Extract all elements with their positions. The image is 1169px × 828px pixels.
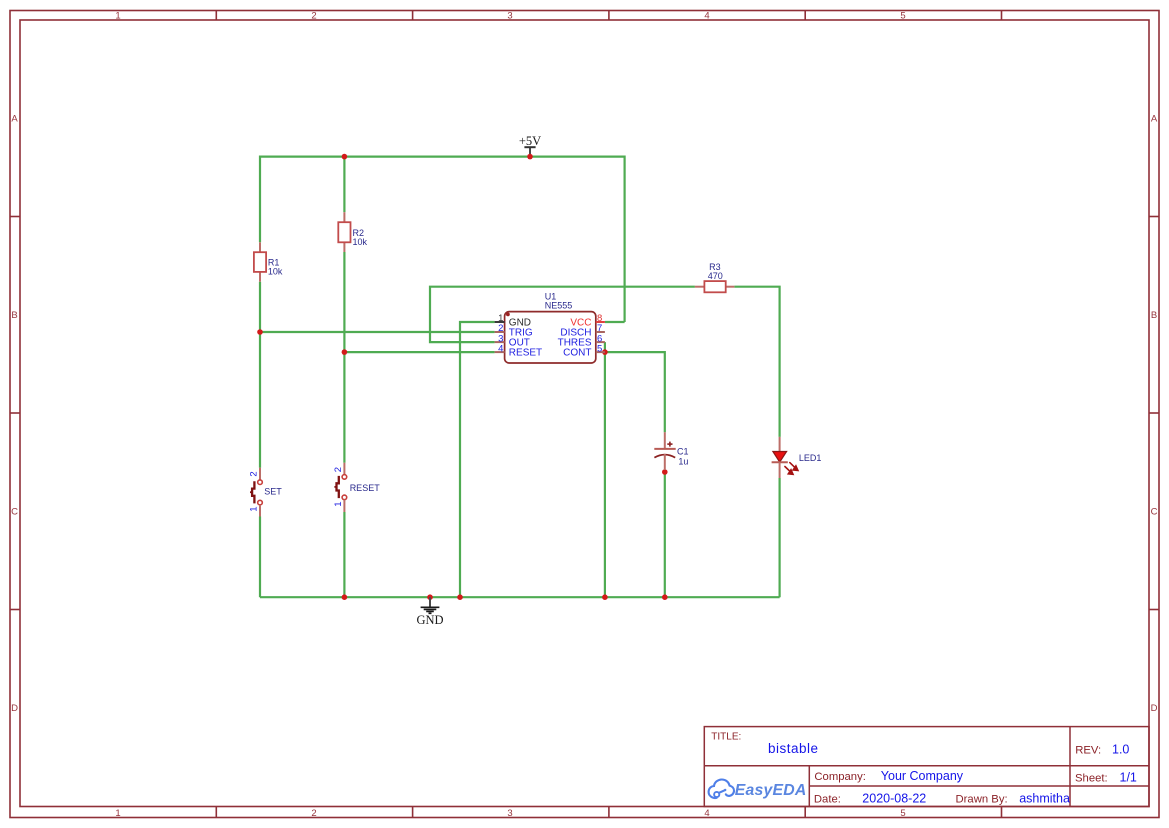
resistor R3 xyxy=(695,262,735,293)
svg-text:5: 5 xyxy=(900,10,905,21)
wire TRIG xyxy=(260,331,495,333)
svg-text:B: B xyxy=(1151,310,1157,321)
wire OUT to R3 xyxy=(430,287,695,342)
svg-text:NE555: NE555 xyxy=(545,301,573,311)
wire C1 bottom xyxy=(664,472,666,597)
wire GND pin1 xyxy=(460,322,495,597)
svg-text:TITLE:: TITLE: xyxy=(711,731,741,742)
wire top +5V rail xyxy=(260,157,625,322)
svg-text:1u: 1u xyxy=(678,457,688,467)
svg-text:B: B xyxy=(11,310,17,321)
svg-text:EasyEDA: EasyEDA xyxy=(735,782,807,799)
node rail C1 junction xyxy=(662,594,668,600)
svg-text:1: 1 xyxy=(115,10,120,21)
ground symbol GND xyxy=(416,597,443,627)
pin 7 DISCH xyxy=(596,331,605,333)
svg-text:C: C xyxy=(11,507,18,518)
wire SET bottom xyxy=(259,517,261,598)
wire RESET pin4 xyxy=(344,351,494,353)
node rail pin1 junction xyxy=(457,594,463,600)
svg-text:10k: 10k xyxy=(268,267,283,277)
wire LED bottom xyxy=(778,478,780,597)
svg-text:ashmitha: ashmitha xyxy=(1019,791,1070,805)
wire THRES riser xyxy=(604,342,606,597)
wire R2 riser xyxy=(343,157,345,213)
resistor R1 xyxy=(254,242,283,281)
node rail GND junction xyxy=(427,594,433,600)
svg-text:1.0: 1.0 xyxy=(1112,743,1129,757)
op-amp U1 NE555 xyxy=(495,291,605,363)
svg-text:Date:: Date: xyxy=(814,794,841,806)
svg-text:+5V: +5V xyxy=(519,134,541,148)
svg-text:470: 470 xyxy=(708,271,723,281)
EasyEDA logo xyxy=(709,779,734,798)
svg-text:RESET: RESET xyxy=(350,483,381,493)
wire CONT to C1 xyxy=(605,352,665,432)
svg-text:A: A xyxy=(1151,114,1158,125)
svg-text:2: 2 xyxy=(311,10,316,21)
svg-text:SET: SET xyxy=(264,486,282,496)
svg-text:2: 2 xyxy=(333,467,344,472)
svg-text:5: 5 xyxy=(597,343,602,354)
switch SET xyxy=(249,468,283,517)
node CONT junction xyxy=(602,349,608,355)
capacitor C1 xyxy=(654,432,688,470)
wire VCC stub link xyxy=(605,321,625,323)
pin 6 THRES xyxy=(596,341,605,343)
svg-text:Sheet:: Sheet: xyxy=(1075,773,1108,785)
pin 5 CONT xyxy=(596,351,605,353)
svg-text:D: D xyxy=(1151,703,1158,714)
svg-text:bistable: bistable xyxy=(768,741,819,756)
LED LED1 xyxy=(772,437,822,478)
node TRIG junction xyxy=(257,329,263,335)
title block xyxy=(704,727,1149,807)
svg-text:10k: 10k xyxy=(353,237,368,247)
svg-text:2: 2 xyxy=(249,471,260,476)
svg-text:3: 3 xyxy=(507,10,512,21)
svg-text:RESET: RESET xyxy=(509,348,542,359)
pin 1 GND xyxy=(495,321,505,323)
pin 8 VCC xyxy=(596,321,605,323)
svg-text:2020-08-22: 2020-08-22 xyxy=(862,792,926,806)
wire R3 to LED xyxy=(734,287,779,437)
svg-text:REV:: REV: xyxy=(1075,745,1101,757)
pin 3 OUT xyxy=(495,341,505,343)
svg-text:CONT: CONT xyxy=(563,348,591,359)
svg-text:C1: C1 xyxy=(677,447,689,457)
svg-text:4: 4 xyxy=(498,343,503,354)
svg-text:1: 1 xyxy=(333,502,344,507)
switch RESET xyxy=(333,463,380,512)
wire R2 column to RESET xyxy=(343,252,345,463)
wire R1 column to SET xyxy=(259,282,261,468)
svg-text:2: 2 xyxy=(311,808,316,819)
node R2 top junction xyxy=(342,154,348,160)
svg-text:D: D xyxy=(11,703,18,714)
pin 2 TRIG xyxy=(495,331,505,333)
svg-text:1: 1 xyxy=(249,507,260,512)
svg-text:5: 5 xyxy=(900,808,905,819)
node RESET junction xyxy=(342,349,348,355)
resistor R2 xyxy=(338,212,367,252)
svg-text:A: A xyxy=(11,114,18,125)
svg-text:4: 4 xyxy=(704,808,709,819)
node rail THRES junction xyxy=(602,594,608,600)
node rail RESET junction xyxy=(342,594,348,600)
svg-text:3: 3 xyxy=(507,808,512,819)
power flag +5V xyxy=(519,134,541,157)
pin 4 RESET xyxy=(495,351,505,353)
wire bottom rail xyxy=(260,596,780,598)
svg-text:1/1: 1/1 xyxy=(1120,771,1137,785)
svg-text:1: 1 xyxy=(115,808,120,819)
svg-text:C: C xyxy=(1151,507,1158,518)
svg-text:GND: GND xyxy=(416,613,443,627)
wire RESET bottom xyxy=(343,512,345,597)
svg-text:LED1: LED1 xyxy=(799,453,822,463)
node C1 bottom junction xyxy=(662,469,668,475)
svg-text:Company:: Company: xyxy=(814,771,866,783)
svg-text:4: 4 xyxy=(704,10,709,21)
node +5V junction xyxy=(527,154,533,160)
svg-text:Drawn By:: Drawn By: xyxy=(956,794,1008,806)
svg-text:Your Company: Your Company xyxy=(881,769,964,783)
